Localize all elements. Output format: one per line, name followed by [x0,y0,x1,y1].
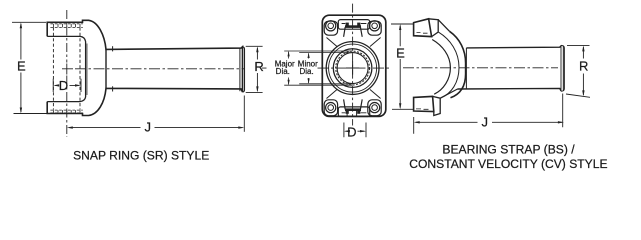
top bearing strap [338,20,369,37]
dimension R right: dim line [582,47,584,95]
E arrows [20,22,22,28]
snap ring groove top ear [50,24,82,28]
hidden bearing cap line left [52,27,54,109]
dimension E right: dim line [399,26,401,108]
hidden bearing cap line right [79,27,81,109]
dimension J right: dim line [416,121,562,123]
left yoke shaft end inner line [243,47,245,92]
R arrows [256,46,258,52]
left yoke bridge inner wall [85,42,87,98]
centerline horizontal right yoke [403,67,558,69]
top lug receding edge [438,20,449,32]
bottom-right bolt pad [368,100,381,116]
top-right bolt hole [370,21,380,31]
dimension R right: extension lines [566,45,590,97]
bow inner curve [432,40,450,95]
svg-text:J: J [482,114,489,129]
left yoke bottom ear topside [47,97,85,102]
left yoke weld tick bottom [112,86,114,91]
hub boss circle [333,49,372,88]
D arrows [53,84,59,86]
center cross mark [346,62,359,75]
shaft end face [561,45,564,91]
svg-text:E: E [17,59,26,74]
dimension D left: dim line [55,84,79,86]
bottom-right bolt hole [370,103,380,113]
major dia arrows stems [288,52,290,85]
dimension D flange: dim line [346,130,365,132]
hub step circle [329,44,377,92]
bottom bearing strap [338,99,369,116]
bottom lug hatch [416,33,429,110]
snap ring groove bottom ear [50,110,82,113]
top-left bolt pad [324,21,337,35]
svg-text:R: R [579,58,588,73]
dimension E right: extension lines [391,24,413,109]
svg-text:SNAP RING (SR) STYLE: SNAP RING (SR) STYLE [73,148,209,162]
dimension J right: extensions [414,94,563,134]
arrowheads left yoke dims [20,22,259,129]
J right arrows [414,121,420,123]
shaft bottom edge [458,88,562,91]
left shaft end inner line [239,48,241,92]
minor dia extension lines [299,53,352,84]
dimension D flange: extension bars [344,123,366,138]
svg-text:D: D [347,124,356,139]
svg-text:R: R [254,59,263,74]
dimension E left: dim line [20,24,22,112]
left yoke weld tick top [112,46,114,51]
hub face line [465,48,467,89]
dimension J left: right extension [243,96,245,132]
dimension D left: extension bars [53,79,81,92]
top-left bolt hole [326,21,336,31]
svg-text:CONSTANT VELOCITY (CV) STYLE: CONSTANT VELOCITY (CV) STYLE [409,157,607,171]
dimension E left: extension lines [12,21,46,23]
shaft top edge [466,46,561,48]
centerline horizontal left yoke [62,68,245,70]
flange centerline horizontal [262,67,267,69]
E right arrows [399,24,401,30]
left yoke neck face [105,49,107,88]
dimension J left: dim line [69,127,243,129]
bottom lug strap band [433,96,441,115]
web diagonals [327,38,381,99]
centerline vertical left yoke [66,10,68,63]
svg-text:BEARING STRAP (BS) /: BEARING STRAP (BS) / [442,143,575,157]
bottom-left bolt pad [324,100,337,116]
hub outer circle [326,42,379,95]
bow middle curve [439,32,459,98]
bottom lug receding edge [440,89,457,98]
left yoke top ear underside [47,36,85,41]
bottom lug front face [414,96,434,111]
svg-text:J: J [145,119,152,134]
flange outline [322,15,386,116]
svg-text:Dia.: Dia. [276,67,290,76]
top lug strap band [429,19,439,37]
flange centerline vertical [352,4,354,126]
svg-text:D: D [59,78,68,93]
left yoke outer profile [47,20,242,115]
svg-text:Dia.: Dia. [299,67,313,76]
dimension R left: dim line [256,48,258,91]
bow outer curve [450,31,466,98]
R right arrows [582,45,584,51]
J arrows [67,126,73,128]
dimension R left: extension lines [246,46,263,92]
minor dia arrows stems [308,53,310,83]
spline major dia circle (dashed) [336,51,370,85]
bottom-left bolt hole [326,103,336,113]
top-right bolt pad [368,21,381,35]
major dia extension lines [284,51,352,85]
spline minor dia / bore circle [337,53,368,84]
svg-text:E: E [396,45,405,60]
top lug front face [414,19,432,37]
